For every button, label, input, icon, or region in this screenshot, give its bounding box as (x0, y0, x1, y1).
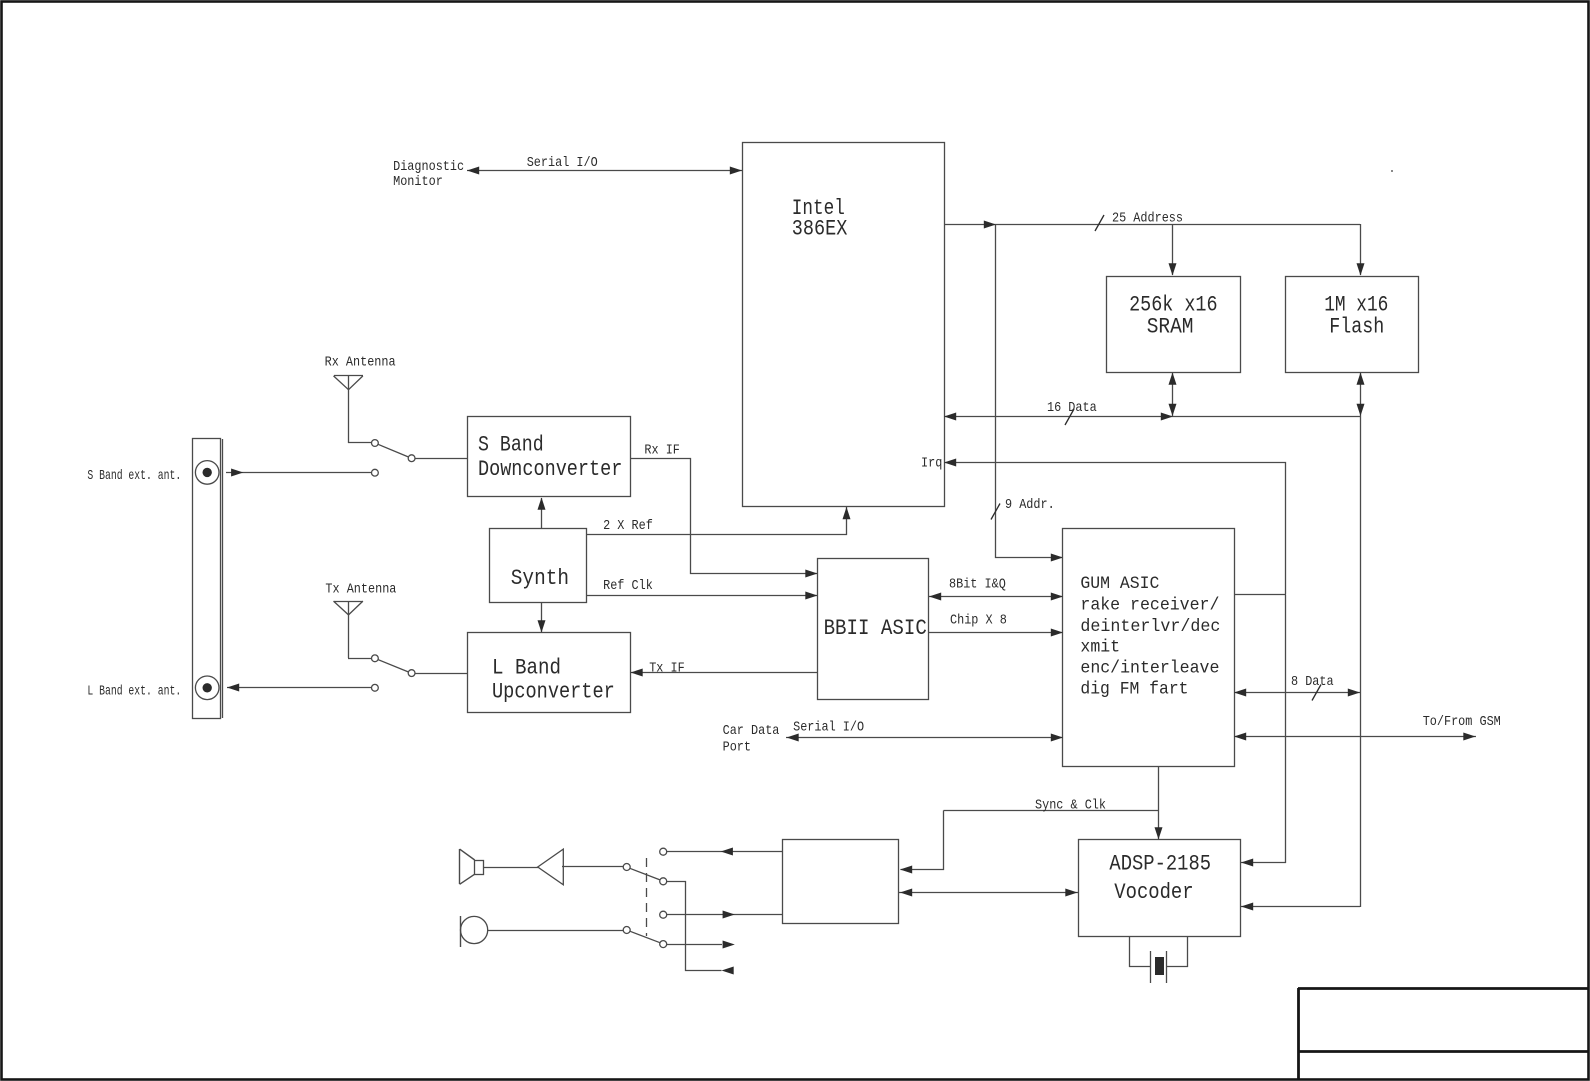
svg-text:Tx IF: Tx IF (649, 660, 685, 676)
svg-text:L Band: L Band (492, 656, 561, 681)
wire Tx IF (630, 672, 818, 674)
svg-text:S Band: S Band (478, 433, 544, 458)
svg-text:Diagnostic: Diagnostic (393, 159, 464, 175)
wire Synth to S Band (541, 498, 543, 528)
block S Band Downconverter (468, 417, 631, 497)
svg-text:386EX: 386EX (792, 217, 848, 242)
svg-text:2 X Ref: 2 X Ref (603, 518, 653, 534)
svg-text:Rx Antenna: Rx Antenna (325, 355, 396, 371)
svg-text:Vocoder: Vocoder (1114, 880, 1193, 905)
wire Synth to L Band (541, 602, 543, 632)
svg-text:Chip X 8: Chip X 8 (950, 613, 1007, 629)
svg-text:enc/interleave: enc/interleave (1080, 658, 1219, 678)
svg-text:S Band ext. ant.: S Band ext. ant. (87, 468, 181, 484)
panel external antenna (193, 439, 221, 719)
svg-text:16 Data: 16 Data (1047, 400, 1097, 416)
block GUM ASIC (1063, 529, 1235, 767)
svg-text:Flash: Flash (1329, 314, 1384, 339)
wire handset tx stub (667, 944, 722, 946)
wire S band ext (226, 472, 371, 474)
memory 1M x16 Flash (1286, 277, 1419, 373)
crystal (1129, 936, 1131, 967)
title block (1298, 987, 1588, 990)
block audio codec (783, 840, 899, 924)
switch mic select (623, 927, 630, 934)
processor Intel 386EX (743, 143, 945, 507)
svg-text:deinterlvr/dec: deinterlvr/dec (1080, 617, 1220, 637)
svg-text:rake receiver/: rake receiver/ (1080, 596, 1219, 616)
block Synth (490, 529, 587, 603)
block ADSP-2185 Vocoder (1079, 840, 1241, 937)
wire Serial I/O (diagnostic) (467, 170, 742, 172)
wire mic line to codec (667, 914, 783, 916)
bus 8 Data (1234, 692, 1360, 694)
svg-text:Serial I/O: Serial I/O (793, 719, 864, 735)
svg-text:Car Data: Car Data (723, 723, 780, 739)
block L Band Upconverter (468, 633, 631, 713)
svg-text:8 Data: 8 Data (1291, 674, 1334, 690)
wire earpiece line (667, 851, 783, 853)
svg-text:Upconverter: Upconverter (492, 679, 615, 704)
wire Serial I/O (car data) (786, 737, 1063, 739)
svg-text:Sync & Clk: Sync & Clk (1035, 797, 1106, 813)
wire Irq (945, 463, 1286, 595)
svg-text:ADSP-2185: ADSP-2185 (1109, 852, 1211, 877)
wire vocoder to audio box (899, 892, 1078, 894)
svg-text:Synth: Synth (511, 566, 569, 591)
switch gang link (646, 858, 648, 936)
block BBII ASIC (818, 559, 929, 700)
svg-text:Port: Port (723, 739, 751, 755)
wire address to SRAM (1172, 224, 1174, 275)
wire Flash net down to vocoder (1360, 416, 1362, 907)
svg-text:To/From GSM: To/From GSM (1423, 714, 1501, 730)
svg-text:dig FM fart: dig FM fart (1080, 679, 1188, 699)
wire Rx IF (631, 459, 818, 574)
bus 25 Address (944, 224, 1360, 226)
connector S band ext (195, 461, 219, 485)
connector L band ext (195, 676, 219, 700)
svg-text:Ref Clk: Ref Clk (603, 578, 653, 594)
wire address to Flash (1360, 224, 1362, 275)
antenna Rx (334, 375, 363, 377)
svg-text:Monitor: Monitor (393, 174, 443, 190)
svg-text:Tx Antenna: Tx Antenna (325, 581, 396, 597)
wire SRAM data (1172, 372, 1174, 416)
label 8 Data (1312, 685, 1321, 701)
wire Sync & Clk (1158, 766, 1160, 839)
wire GUM to Irq net (1234, 594, 1286, 596)
svg-text:xmit: xmit (1080, 638, 1120, 658)
switch Tx antenna select (348, 658, 371, 660)
wire L band ext (227, 687, 371, 689)
wire Irq net down to vocoder (1285, 595, 1287, 863)
label 9 Addr. (991, 504, 1000, 520)
svg-text:Rx IF: Rx IF (644, 442, 680, 458)
antenna Tx (334, 601, 363, 603)
label 25 Address (1095, 215, 1104, 231)
svg-text:GUM ASIC: GUM ASIC (1080, 574, 1159, 594)
memory 256k x16 SRAM (1107, 277, 1241, 373)
wire 8Bit I&Q (929, 596, 1063, 598)
switch Rx antenna select (348, 442, 371, 444)
svg-text:Downconverter: Downconverter (478, 457, 622, 482)
wire Flash data (1360, 372, 1362, 416)
bus 9 Addr (996, 225, 1063, 558)
wire Chip X 8 (929, 632, 1063, 634)
wire To/From GSM (1234, 736, 1476, 738)
microphone (461, 916, 488, 943)
svg-text:L Band ext. ant.: L Band ext. ant. (87, 683, 181, 699)
switch speaker select (623, 864, 630, 871)
wire 2 X Ref (587, 507, 847, 535)
svg-text:BBII ASIC: BBII ASIC (824, 616, 927, 641)
svg-text:Irq: Irq (921, 455, 942, 471)
speaker (459, 849, 461, 884)
wire Ref Clk (586, 595, 818, 597)
svg-text:Serial I/O: Serial I/O (527, 155, 598, 171)
bus 16 Data (944, 416, 1360, 418)
svg-text:8Bit I&Q: 8Bit I&Q (949, 576, 1006, 592)
wire handset rx stub (667, 882, 722, 971)
label 16 Data (1065, 409, 1074, 425)
amplifier speaker amp (538, 849, 564, 885)
svg-text:9 Addr.: 9 Addr. (1005, 497, 1055, 513)
svg-text:SRAM: SRAM (1147, 314, 1194, 339)
stray mark (1391, 170, 1393, 172)
